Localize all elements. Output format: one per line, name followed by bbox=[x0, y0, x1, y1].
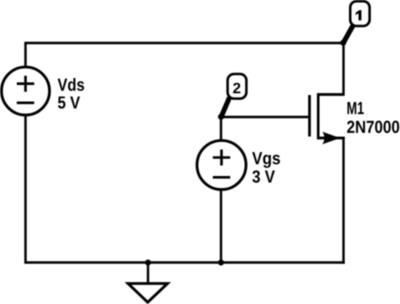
node 2 leader line bbox=[221, 98, 229, 117]
node 2 junction dot bbox=[218, 114, 224, 120]
ground stub wire bbox=[147, 263, 149, 285]
wire: node 1 net, Vds+ lead up and across top bbox=[26, 43, 344, 68]
voltage source Vgs bbox=[197, 141, 246, 190]
label Vds bbox=[58, 78, 84, 91]
node 1 leader line bbox=[344, 26, 354, 43]
transistor M1 (NMOS) gate bar bbox=[308, 95, 311, 137]
label Vgs bbox=[252, 152, 280, 168]
transistor M1 source lead bbox=[317, 137, 345, 139]
wire: node 2 net, gate wire bbox=[220, 116, 308, 118]
transistor M1 channel bar bbox=[317, 93, 320, 139]
value label 2N7000 bbox=[347, 121, 399, 133]
node 2 label text bbox=[233, 83, 240, 93]
transistor M1 source arrow bbox=[323, 132, 341, 145]
junction dot at Vgs- on bottom wire bbox=[218, 260, 224, 266]
junction dot at ground tap on bottom wire bbox=[145, 260, 151, 266]
node 1 label text bbox=[356, 10, 362, 20]
transistor M1 drain lead bbox=[317, 93, 344, 95]
value label 5 V bbox=[58, 96, 80, 108]
wire: ground net, M1 source down to bottom bbox=[317, 138, 343, 264]
wire: node 1 net, down right side to M1 drain bbox=[317, 42, 343, 95]
wire: ground net, Vds- lead down left side and across bottom bbox=[26, 115, 345, 263]
label M1 bbox=[347, 102, 363, 114]
node 1 junction dot bbox=[340, 40, 346, 46]
wire: ground net, Vgs- lead down to bottom bbox=[220, 189, 222, 264]
voltage source Vds bbox=[2, 67, 50, 115]
value label 3 V bbox=[252, 170, 275, 182]
ground symbol bbox=[128, 284, 168, 303]
wire: node 2 net, Vgs+ lead up to gate wire bbox=[220, 116, 222, 142]
node 2 label box bbox=[228, 74, 247, 99]
node 1 label box bbox=[350, 1, 369, 26]
